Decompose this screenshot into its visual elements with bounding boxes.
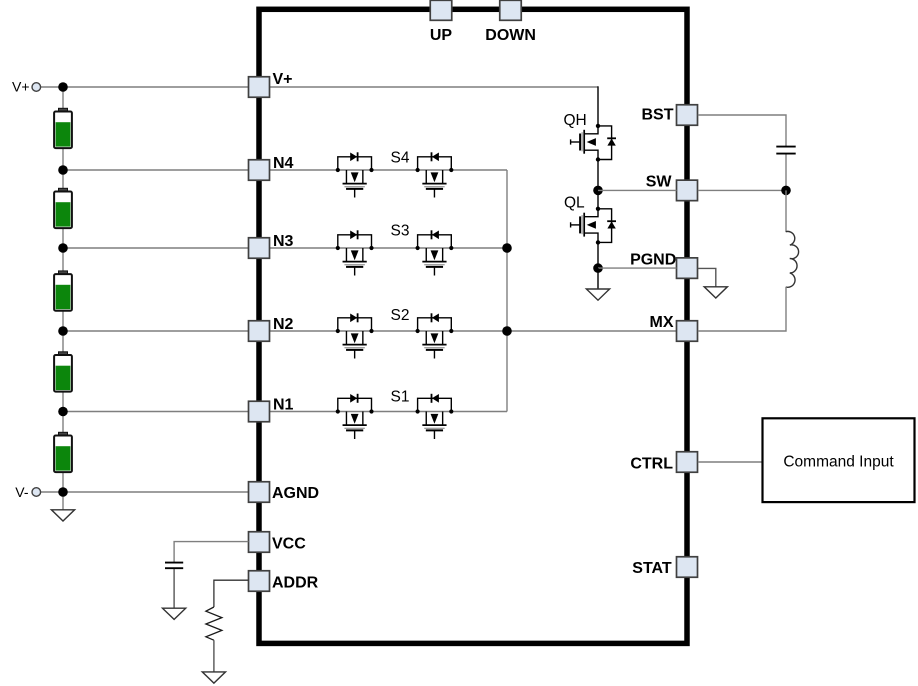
transistor S3 right FET: [418, 235, 452, 248]
transistor S1 right FET: [418, 398, 452, 411]
wire BST pin to capacitor: [698, 115, 786, 146]
battery cell 5 (top): [59, 108, 68, 111]
node N1 junction: [58, 407, 68, 417]
pin PGND: [630, 251, 697, 278]
svg-text:N2: N2: [273, 316, 294, 333]
pin STAT: [632, 557, 697, 578]
node N2 junction: [58, 326, 68, 336]
pin V+: [249, 71, 293, 97]
wire capacitor to ground: [173, 569, 175, 608]
svg-text:AGND: AGND: [272, 485, 319, 502]
wire battery chain segment 2: [62, 148, 64, 188]
wire inductor to MX pin: [698, 287, 786, 331]
battery cell 1 (bottom): [59, 432, 68, 435]
pin CTRL: [630, 452, 697, 473]
pin VCC: [249, 532, 307, 553]
ground ADDR: [202, 672, 225, 683]
svg-text:S2: S2: [391, 307, 410, 324]
wire V+ rail inside IC to QH drain: [270, 86, 599, 88]
svg-text:N1: N1: [273, 397, 294, 414]
pin N2: [249, 316, 294, 341]
wire PGND junction to ground: [597, 268, 599, 289]
svg-text:ADDR: ADDR: [272, 574, 319, 591]
svg-text:N3: N3: [273, 233, 294, 250]
wire V+ rail from terminal to V+ pin: [41, 86, 249, 88]
transistor S2 left FET: [338, 318, 372, 331]
battery cell 4: [59, 188, 68, 191]
wire N4 row: [64, 169, 507, 171]
wire capacitor to SW node: [785, 155, 787, 191]
ground V-: [51, 510, 74, 521]
wire battery chain segment 5: [62, 391, 64, 432]
pin MX: [650, 314, 698, 341]
transistor QH: [584, 126, 598, 134]
svg-text:S1: S1: [391, 389, 410, 406]
svg-text:UP: UP: [430, 27, 453, 44]
node bus-N2 junction: [502, 326, 512, 336]
pin UP: [430, 0, 453, 44]
wire N3 row: [64, 247, 507, 249]
wire switch bus vertical: [506, 170, 508, 412]
node N3 junction: [58, 243, 68, 253]
svg-text:Command Input: Command Input: [783, 454, 894, 471]
svg-text:SW: SW: [646, 173, 673, 190]
svg-text:VCC: VCC: [272, 536, 306, 553]
node V- junction: [58, 487, 68, 497]
node SW external junction: [781, 186, 791, 196]
wire N2 row to MX pin: [64, 330, 677, 332]
pin ADDR: [249, 571, 319, 592]
svg-text:MX: MX: [650, 314, 674, 331]
transistor S3 left FET: [338, 235, 372, 248]
resistor ADDR: [206, 607, 222, 640]
svg-text:S4: S4: [391, 150, 410, 167]
inductor L1: [786, 231, 799, 287]
svg-text:STAT: STAT: [632, 560, 672, 577]
wire CTRL to Command Input: [698, 461, 763, 463]
svg-text:QL: QL: [564, 195, 585, 212]
svg-text:PGND: PGND: [630, 251, 676, 268]
terminal V+: [12, 79, 41, 95]
wire VCC pin to capacitor: [174, 542, 248, 562]
wire battery chain segment 4: [62, 311, 64, 352]
pin DOWN: [485, 0, 536, 44]
svg-text:QH: QH: [564, 112, 587, 129]
wire QH source to QL drain: [597, 160, 599, 209]
wire AGND row: [41, 491, 249, 493]
node SW junction: [593, 186, 603, 196]
wire SW node to inductor: [785, 190, 787, 231]
battery cell 2: [59, 352, 68, 355]
svg-text:V+: V+: [273, 71, 293, 88]
transistor S2 right FET: [418, 318, 452, 331]
pin N1: [249, 397, 294, 422]
node bus-N3 junction: [502, 243, 512, 253]
wire battery chain segment 1: [62, 87, 64, 108]
pin SW: [646, 173, 698, 200]
wire ADDR pin to resistor: [214, 580, 249, 607]
wire resistor to ground: [213, 640, 215, 672]
svg-text:BST: BST: [642, 106, 674, 123]
battery cell 3: [59, 271, 68, 274]
pin AGND: [249, 482, 320, 503]
capacitor VCC decoupling: [165, 563, 183, 569]
transistor S1 left FET: [338, 398, 372, 411]
wire PGND pin to external ground: [698, 268, 716, 286]
terminal V-: [15, 484, 40, 500]
svg-text:N4: N4: [273, 155, 294, 172]
block Command Input: [763, 418, 915, 502]
svg-text:CTRL: CTRL: [630, 455, 673, 472]
node V+ junction: [58, 82, 68, 92]
svg-text:S3: S3: [391, 223, 410, 240]
IC body outline: [259, 9, 687, 643]
wire PGND pin to half-bridge: [598, 267, 677, 269]
transistor QL: [584, 209, 598, 217]
svg-text:V+: V+: [12, 79, 30, 95]
transistor S4 right FET: [418, 157, 452, 170]
transistor S4 left FET: [338, 157, 372, 170]
wire SW pin to half-bridge: [598, 189, 677, 191]
ground PGND external: [704, 287, 727, 298]
capacitor bootstrap: [776, 147, 795, 154]
ground VCC: [163, 608, 186, 619]
node PGND junction: [593, 263, 603, 273]
ground power stage: [586, 289, 609, 300]
svg-text:V-: V-: [15, 484, 29, 500]
pin N4: [249, 155, 294, 180]
wire SW pin to SW node: [698, 189, 786, 191]
wire battery chain segment 3: [62, 228, 64, 271]
wire QH drain drop: [597, 86, 599, 126]
pin BST: [642, 105, 698, 126]
pin N3: [249, 233, 294, 258]
wire N1 row: [64, 411, 507, 413]
svg-text:DOWN: DOWN: [485, 27, 536, 44]
node N4 junction: [58, 165, 68, 175]
wire QL source to PGND: [597, 242, 599, 268]
wire battery chain segment 6: [62, 472, 64, 510]
